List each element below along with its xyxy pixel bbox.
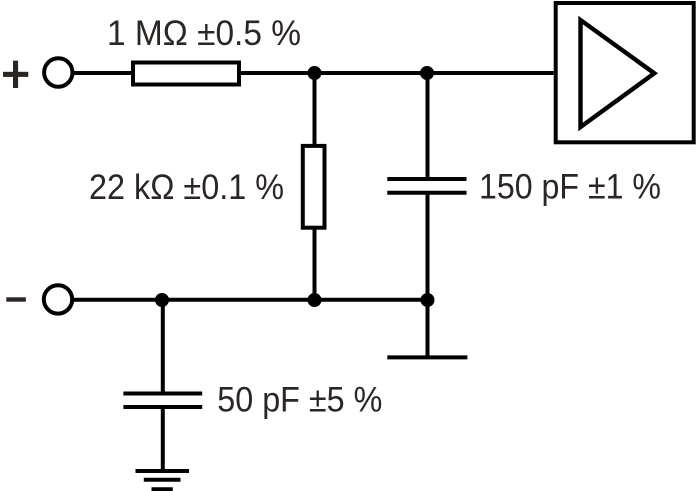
- svg-text:1 MΩ ±0.5 %: 1 MΩ ±0.5 %: [107, 13, 301, 53]
- svg-text:22 kΩ ±0.1 %: 22 kΩ ±0.1 %: [89, 167, 284, 207]
- svg-text:150 pF ±1 %: 150 pF ±1 %: [479, 166, 661, 206]
- svg-text:50 pF ±5 %: 50 pF ±5 %: [217, 379, 382, 419]
